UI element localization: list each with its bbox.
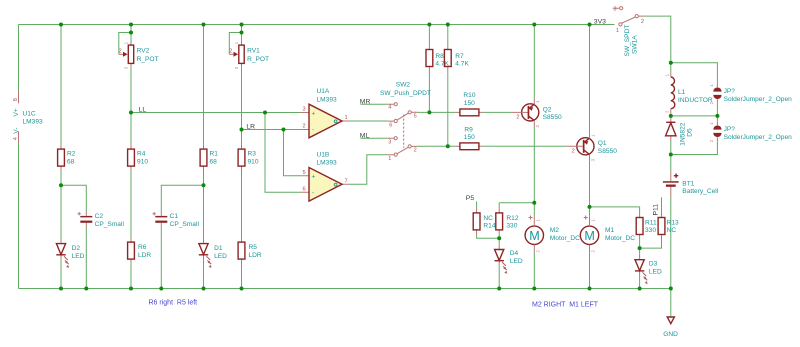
motor M1	[580, 216, 635, 253]
junction R8 top	[427, 23, 431, 27]
svg-text:2: 2	[536, 250, 541, 253]
svg-text:LM393: LM393	[317, 96, 337, 103]
switch SW2 SW_Push_DPDT	[380, 82, 431, 162]
wire U1B output to SW2 pin1	[349, 155, 388, 185]
svg-text:+: +	[312, 174, 316, 181]
svg-text:R3: R3	[248, 150, 257, 157]
svg-text:D1: D1	[214, 245, 223, 252]
svg-text:2: 2	[229, 49, 232, 55]
svg-text:2: 2	[664, 110, 669, 113]
junction Q2 emitter rail	[532, 23, 536, 27]
svg-text:P5: P5	[466, 195, 475, 202]
LED D3	[635, 255, 662, 284]
junction rail D3	[638, 287, 642, 291]
svg-text:M: M	[584, 229, 595, 243]
svg-text:6: 6	[389, 123, 392, 129]
wire R12 branch	[499, 203, 534, 289]
svg-text:R7: R7	[455, 53, 464, 60]
svg-text:R6: R6	[138, 244, 147, 251]
svg-text:LDR: LDR	[138, 252, 151, 259]
wire LL branch to U1B pin6	[265, 113, 301, 193]
svg-text:3: 3	[234, 66, 239, 69]
svg-text:7: 7	[345, 178, 348, 184]
svg-text:4.7K: 4.7K	[455, 61, 469, 68]
svg-text:M1: M1	[605, 227, 614, 234]
wire net MR stub	[361, 103, 388, 105]
junction R7 ML	[446, 144, 450, 148]
svg-text:RV1: RV1	[247, 48, 260, 55]
wire R11 branch	[590, 207, 640, 289]
wire R13 column	[640, 197, 662, 248]
junction R1 top	[202, 23, 206, 27]
junction R8 MR	[427, 110, 431, 114]
svg-text:LM393: LM393	[23, 118, 43, 125]
wire R7 column	[447, 25, 449, 147]
junction R11 R13	[638, 246, 642, 250]
svg-text:4: 4	[13, 137, 19, 140]
svg-text:1: 1	[535, 100, 540, 103]
junction R12 R14	[497, 236, 501, 240]
svg-text:U1C: U1C	[23, 111, 36, 118]
resistor R7	[444, 45, 469, 71]
svg-text:SW1A: SW1A	[632, 35, 639, 54]
svg-text:L1: L1	[678, 89, 686, 96]
wire RV2 R4 R6 column	[130, 25, 132, 289]
svg-text:C2: C2	[95, 213, 104, 220]
svg-text:1: 1	[590, 134, 595, 137]
ground symbol GND	[663, 317, 678, 338]
junction R7 top	[446, 23, 450, 27]
resistor R3	[238, 145, 259, 171]
svg-text:S8550: S8550	[543, 114, 562, 121]
svg-text:GND: GND	[663, 331, 678, 338]
wire RV1 wiper loop	[229, 33, 241, 55]
LED D2	[56, 239, 84, 268]
svg-text:1: 1	[345, 115, 348, 121]
wire net LR	[242, 129, 301, 131]
wire C2 branch	[61, 185, 86, 288]
svg-text:LL: LL	[139, 107, 147, 114]
resistor R12	[496, 208, 519, 234]
wire LR branch to U1B pin5	[284, 130, 301, 176]
op-amp U1B	[301, 152, 349, 202]
svg-text:SolderJumper_2_Open: SolderJumper_2_Open	[724, 134, 793, 141]
junction D5 top	[669, 114, 673, 118]
transistor Q2 S8550	[511, 98, 562, 127]
resistor R2	[58, 145, 76, 171]
svg-text:RV2: RV2	[137, 48, 150, 55]
capacitor C1	[153, 212, 200, 228]
svg-text:1: 1	[709, 122, 714, 125]
resistor R8	[426, 45, 450, 71]
svg-text:R6 right R5 left: R6 right R5 left	[149, 299, 198, 306]
svg-text:LED: LED	[214, 253, 227, 260]
svg-text:R14: R14	[483, 223, 495, 230]
junction RV1 wiper	[240, 31, 244, 35]
svg-text:6: 6	[303, 186, 306, 192]
svg-text:SW_SPDT: SW_SPDT	[624, 25, 631, 57]
wire left V- column lower	[18, 143, 20, 289]
svg-text:Battery_Cell: Battery_Cell	[682, 188, 718, 195]
junction rail M2	[532, 287, 536, 291]
junction rail R5	[240, 287, 244, 291]
wire net LL	[131, 112, 301, 114]
svg-text:68: 68	[67, 159, 75, 166]
svg-text:4: 4	[388, 105, 391, 111]
svg-text:1: 1	[709, 84, 714, 87]
svg-text:D3: D3	[649, 261, 658, 268]
junction BT1 bottom	[669, 287, 673, 291]
wire MR net SW2 to R10 to Q2	[417, 111, 511, 113]
junction Q1 collector	[588, 205, 592, 209]
svg-text:D4: D4	[510, 250, 519, 257]
svg-text:2: 2	[119, 49, 122, 55]
svg-text:P11: P11	[653, 204, 660, 216]
junction rail D4	[497, 287, 501, 291]
junction RV2 wiper	[129, 31, 133, 35]
wire RV1 R3 R5 column	[241, 25, 243, 289]
svg-text:S8550: S8550	[598, 148, 617, 155]
wire Q2 M2 column	[533, 25, 535, 289]
junction R2 top	[59, 23, 63, 27]
svg-text:330: 330	[506, 223, 517, 230]
wire 3V3 top rail	[19, 24, 615, 26]
wire RV2 wiper loop	[119, 33, 131, 55]
svg-text:5: 5	[414, 114, 417, 120]
svg-text:1: 1	[591, 219, 596, 222]
svg-text:3: 3	[590, 158, 595, 161]
junction rail D1	[202, 287, 206, 291]
svg-text:BT1: BT1	[682, 180, 694, 187]
svg-text:Q1: Q1	[598, 140, 607, 147]
svg-text:LDR: LDR	[249, 252, 262, 259]
op-amp U1C power unit	[13, 92, 43, 143]
wire U1A output to SW2 pin6	[349, 120, 388, 122]
junction rail C2	[84, 287, 88, 291]
svg-text:SolderJumper_2_Open: SolderJumper_2_Open	[724, 96, 793, 103]
LDR R6	[128, 238, 152, 264]
svg-text:V+: V+	[13, 108, 20, 116]
svg-text:910: 910	[137, 159, 148, 166]
svg-text:1: 1	[388, 156, 391, 162]
svg-text:JP?: JP?	[724, 88, 736, 95]
LED D1	[199, 239, 227, 268]
svg-text:Q2: Q2	[543, 106, 552, 113]
svg-text:NC: NC	[483, 215, 493, 222]
resistor R14	[473, 208, 496, 234]
junction rail D2	[59, 287, 63, 291]
svg-text:D2: D2	[72, 245, 81, 252]
svg-text:R_POT: R_POT	[247, 56, 269, 63]
wire ML net SW2 to R9 to Q1	[417, 145, 566, 147]
junction Q1 emitter rail	[588, 23, 592, 27]
junction C1 node	[202, 183, 206, 187]
svg-text:R_POT: R_POT	[137, 56, 159, 63]
junction C2 node	[59, 183, 63, 187]
svg-text:R2: R2	[67, 150, 76, 157]
svg-text:SW2: SW2	[396, 82, 411, 89]
svg-text:2: 2	[591, 250, 596, 253]
solder jumper JP1	[709, 83, 792, 104]
svg-text:R11: R11	[645, 219, 657, 226]
svg-text:R10: R10	[463, 92, 475, 99]
transistor Q1 S8550	[566, 132, 617, 161]
svg-text:330: 330	[645, 227, 656, 234]
svg-text:2: 2	[414, 148, 417, 154]
wire R2 column	[60, 25, 62, 289]
wire R8 column	[428, 25, 430, 113]
junction node LR	[240, 128, 244, 132]
junction rail C1	[159, 287, 163, 291]
svg-text:8: 8	[13, 98, 19, 101]
wire left V+ column upper	[18, 25, 20, 93]
svg-text:R4: R4	[137, 150, 146, 157]
resistor R11	[636, 213, 657, 239]
junction JP2 top	[715, 114, 719, 118]
LDR R5	[238, 238, 262, 264]
svg-text:2: 2	[303, 124, 306, 130]
wire R1 D1 column	[203, 25, 205, 289]
junction RV1 top	[240, 23, 244, 27]
svg-text:CP_Small: CP_Small	[170, 221, 200, 228]
svg-text:MR: MR	[360, 98, 371, 105]
potentiometer RV2	[119, 41, 159, 69]
wire net ML stub	[361, 137, 388, 139]
svg-text:2: 2	[516, 115, 519, 121]
svg-text:INDUCTOR: INDUCTOR	[678, 97, 713, 104]
svg-text:3: 3	[613, 6, 616, 12]
svg-text:-: -	[312, 127, 314, 134]
svg-text:U1B: U1B	[317, 152, 330, 159]
svg-text:150: 150	[464, 100, 475, 107]
battery BT1	[663, 171, 719, 196]
wire SW1 output to right column	[645, 16, 671, 63]
junction Q2 collector	[532, 201, 536, 205]
resistor R10	[456, 92, 483, 116]
svg-text:R12: R12	[506, 215, 518, 222]
svg-text:M: M	[529, 229, 540, 243]
svg-text:4.7K: 4.7K	[435, 61, 449, 68]
LED D4	[495, 245, 523, 274]
svg-text:M2 RIGHT M1 LEFT: M2 RIGHT M1 LEFT	[532, 301, 599, 308]
svg-text:LR: LR	[246, 124, 255, 131]
svg-text:1: 1	[234, 41, 239, 44]
svg-text:1: 1	[664, 73, 669, 76]
svg-text:R8: R8	[435, 53, 444, 60]
diode D5 1N5822	[666, 116, 694, 146]
resistor R9	[456, 126, 483, 149]
svg-text:1: 1	[616, 28, 619, 34]
svg-text:R5: R5	[249, 244, 258, 251]
svg-text:SW_Push_DPDT: SW_Push_DPDT	[380, 90, 431, 97]
svg-text:5: 5	[303, 170, 306, 176]
junction node LL	[129, 111, 133, 115]
junction rail R6	[129, 287, 133, 291]
wire L1 D5 BT1 column	[670, 63, 672, 317]
svg-text:1N5822: 1N5822	[679, 122, 686, 145]
resistor R4	[128, 145, 149, 171]
svg-text:1: 1	[124, 41, 129, 44]
solder jumper JP2	[709, 121, 792, 142]
svg-text:3: 3	[124, 66, 129, 69]
svg-text:2: 2	[572, 149, 575, 155]
svg-text:U1A: U1A	[317, 88, 330, 95]
junction L1 top	[669, 61, 673, 65]
svg-text:R1: R1	[210, 150, 219, 157]
wire P5 R14 column	[477, 201, 500, 238]
svg-text:2: 2	[709, 139, 714, 142]
svg-text:R13: R13	[667, 219, 679, 226]
svg-text:JP?: JP?	[724, 126, 736, 133]
svg-text:Motor_DC: Motor_DC	[605, 235, 635, 242]
junction rail M1	[588, 287, 592, 291]
resistor R1	[200, 145, 218, 171]
svg-text:CP_Small: CP_Small	[95, 221, 125, 228]
svg-text:910: 910	[248, 159, 259, 166]
svg-text:2: 2	[641, 19, 644, 25]
junction RV2 top	[129, 23, 133, 27]
junction LR branch	[282, 128, 286, 132]
svg-text:LED: LED	[72, 253, 85, 260]
svg-text:Motor_DC: Motor_DC	[550, 235, 580, 242]
resistor R13	[658, 213, 679, 239]
svg-text:3V3: 3V3	[594, 19, 606, 26]
svg-text:R9: R9	[464, 126, 473, 133]
potentiometer RV1	[229, 41, 269, 69]
svg-text:150: 150	[464, 134, 475, 141]
svg-text:68: 68	[210, 159, 218, 166]
op-amp U1A	[301, 88, 349, 138]
wire jumper column	[671, 63, 718, 155]
svg-text:+: +	[312, 110, 316, 117]
svg-text:M2: M2	[550, 227, 559, 234]
junction LL branch	[263, 111, 267, 115]
inductor L1	[664, 72, 713, 113]
svg-text:ML: ML	[360, 132, 370, 139]
svg-text:3: 3	[535, 125, 540, 128]
capacitor C2	[78, 212, 125, 228]
svg-text:NC: NC	[667, 227, 677, 234]
motor M2	[525, 216, 580, 253]
wire C1 branch	[161, 185, 203, 288]
svg-text:3: 3	[388, 139, 391, 145]
svg-text:3: 3	[303, 107, 306, 113]
svg-text:D5: D5	[687, 128, 694, 137]
junction D5 bottom	[669, 153, 673, 157]
wire Q1 M1 column	[589, 25, 591, 289]
svg-text:V-: V-	[13, 128, 20, 134]
switch SW1 SW_SPDT	[613, 6, 645, 56]
svg-text:LED: LED	[649, 268, 662, 275]
svg-text:LED: LED	[510, 258, 523, 265]
svg-text:LM393: LM393	[317, 160, 337, 167]
svg-text:-: -	[312, 189, 314, 196]
svg-text:1: 1	[536, 219, 541, 222]
wire GND bottom rail	[19, 288, 671, 290]
svg-text:C1: C1	[170, 213, 179, 220]
